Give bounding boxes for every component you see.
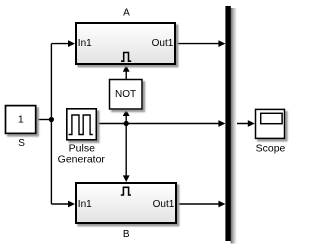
wire: A Out1 to mux <box>176 43 219 45</box>
svg-text:Out1: Out1 <box>152 38 174 49</box>
svg-text:Scope: Scope <box>256 143 286 155</box>
pulse generator waveform icon <box>69 115 93 135</box>
svg-text:Out1: Out1 <box>153 199 175 210</box>
subsystem block B <box>76 183 176 223</box>
pulse generator block <box>67 109 97 140</box>
wire: Pulse Generator output to mux <box>97 123 219 125</box>
wire: to B In1 <box>51 203 69 205</box>
wire: B Out1 to mux <box>177 203 219 205</box>
svg-text:Pulse: Pulse <box>69 142 95 154</box>
wire: junction down to B trigger port <box>125 124 127 178</box>
svg-text:In1: In1 <box>78 38 92 49</box>
svg-text:A: A <box>123 8 130 19</box>
mux bar <box>225 6 230 241</box>
wire: S constant to junction <box>36 119 51 121</box>
wire: junction up to NOT input <box>125 114 127 124</box>
svg-text:NOT: NOT <box>115 89 136 100</box>
constant block S value 1 <box>6 106 36 134</box>
svg-text:In1: In1 <box>78 199 92 210</box>
subsystem block A <box>76 23 175 64</box>
wire: NOT output up to A trigger port <box>125 70 127 79</box>
svg-text:B: B <box>123 229 130 240</box>
node: pulse signal junction <box>124 121 129 126</box>
node: branch junction of S signal <box>49 117 54 122</box>
svg-text:S: S <box>18 138 25 149</box>
svg-text:Generator: Generator <box>58 154 106 166</box>
scope screen <box>261 113 282 123</box>
wire: vertical branch from junction up to A In1 and down to B In1 <box>50 44 52 204</box>
logical operator block NOT <box>110 80 143 110</box>
scope block <box>256 109 285 138</box>
svg-text:1: 1 <box>18 114 24 126</box>
trigger pulse icon of A <box>121 53 131 62</box>
mux bar shadow <box>231 8 237 244</box>
wire: mux to Scope <box>231 123 249 125</box>
wire: to A In1 <box>51 43 69 45</box>
trigger pulse icon of B <box>121 187 131 195</box>
